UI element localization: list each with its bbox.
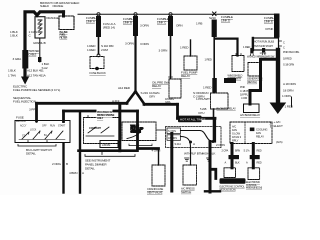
svg-text:BLK: BLK (235, 160, 240, 164)
hot in run box (253, 38, 279, 50)
bus hot at all times dashed (78, 13, 274, 15)
svg-text:3 ORN: 3 ORN (140, 42, 149, 46)
svg-text:FILTER: FILTER (60, 36, 68, 39)
svg-text:ACCY: ACCY (20, 125, 27, 128)
wire blower relay to junction (213, 109, 215, 141)
svg-text:A/C: A/C (232, 125, 236, 129)
small labels boxes right of oil box (167, 128, 181, 134)
ground bracket symbols mid bottom (185, 158, 190, 161)
branch to a/c press switch (190, 148, 192, 166)
thick wire oil switch to bottom (170, 134, 173, 192)
ECM internal divider (244, 122, 246, 144)
svg-text:FAN: FAN (256, 131, 261, 135)
a/c blower relay box (244, 104, 260, 113)
svg-text:1 TAN: 1 TAN (8, 74, 16, 78)
terminal label box 18 ORN (167, 135, 181, 141)
svg-text:LINK E: LINK E (264, 20, 273, 24)
svg-text:LINK C: LINK C (157, 21, 167, 25)
svg-text:S 214: S 214 (175, 142, 182, 146)
in-line fuel filter box (59, 16, 74, 30)
wire A below box1 (62, 144, 64, 193)
svg-text:S ORN: S ORN (168, 130, 176, 133)
wire along y118 (178, 117, 216, 120)
wire oil switch contact lower (181, 137, 191, 148)
svg-text:1 RED: 1 RED (180, 46, 189, 50)
hot box thick left edge (252, 38, 254, 50)
svg-text:RED: RED (257, 149, 262, 153)
svg-text:C: C (283, 46, 285, 50)
wire right drop x137 (136, 111, 139, 149)
relay coil black square (250, 128, 255, 132)
svg-text:2 ORG: 2 ORG (52, 162, 62, 166)
svg-text:RELAY: RELAY (181, 74, 190, 78)
corner right down (176, 104, 179, 118)
svg-text:A12 BLK 451: A12 BLK 451 (27, 69, 44, 73)
wire drop into ignition switch box (62, 111, 65, 122)
svg-text:A 18 ORN: A 18 ORN (283, 82, 296, 86)
bracket under box1 (18, 145, 56, 147)
ECM big dashed box (230, 122, 272, 144)
svg-text:B: B (66, 162, 68, 166)
svg-text:ONLY: ONLY (97, 117, 104, 120)
oil pressure dashed box (122, 122, 156, 141)
black label box (178, 116, 202, 123)
wire link B down (134, 36, 136, 91)
connector C100 (97, 54, 100, 57)
svg-text:18 RED: 18 RED (283, 57, 292, 61)
svg-text:SWITCH: SWITCH (181, 190, 191, 194)
svg-text:3 ORN: 3 ORN (159, 49, 168, 53)
dashed box under (232, 56, 244, 72)
bars hanging from ECM box (231, 144, 234, 168)
svg-text:S 18 GRN: S 18 GRN (283, 63, 294, 67)
ignition switch detail box (15, 121, 70, 143)
svg-text:SHIELD ORANGE: SHIELD ORANGE (40, 4, 63, 8)
bus right horizontal (144, 103, 178, 106)
wire ECM drop right (252, 144, 255, 168)
wire link D down thin (213, 37, 215, 78)
svg-text:L35 RM: L35 RM (102, 143, 110, 147)
svg-text:3 GRA: 3 GRA (13, 57, 23, 61)
blower relay dashed box (211, 93, 229, 109)
fusible link symbol above blower relay (212, 78, 217, 93)
svg-text:1 ORN: 1 ORN (282, 94, 291, 98)
link D to box drop wire (216, 39, 238, 56)
svg-text:LINK B: LINK B (123, 21, 132, 25)
corner left down (35, 103, 38, 121)
svg-text:GRN/WH B: GRN/WH B (33, 41, 46, 45)
crankcase dashed box (152, 165, 165, 186)
svg-text:OFF: OFF (42, 126, 47, 128)
svg-text:1 RB: 1 RB (196, 22, 202, 26)
svg-text:RUN: RUN (50, 126, 55, 128)
svg-text:2 ORN: 2 ORN (216, 143, 225, 147)
corner down to junction (214, 118, 216, 141)
wire along y148 (138, 147, 159, 150)
svg-text:1 PNK: 1 PNK (260, 51, 267, 55)
svg-text:S LOW: S LOW (232, 132, 241, 136)
svg-text:RED: RED (257, 160, 262, 164)
svg-text:LOCK: LOCK (30, 130, 37, 132)
pin ticks wiper motor box (236, 54, 241, 56)
wire link A down (98, 37, 100, 54)
relay dashed box R1 (184, 56, 197, 70)
svg-text:A/C BLWR RELAY: A/C BLWR RELAY (240, 113, 260, 117)
svg-text:C: C (283, 41, 285, 45)
svg-text:1 RED: 1 RED (203, 86, 212, 90)
svg-text:GRA: GRA (165, 100, 171, 104)
svg-text:RELAY: RELAY (152, 84, 161, 88)
svg-text:MODULE (ECM): MODULE (ECM) (246, 187, 262, 190)
bracket under oil box (129, 144, 152, 146)
connector nubs under hot box (250, 48, 253, 53)
svg-text:LINK D: LINK D (221, 19, 231, 23)
svg-text:VENT VALVE: VENT VALVE (147, 191, 163, 195)
svg-text:HOT AT ALL TIMES: HOT AT ALL TIMES (180, 118, 205, 122)
wire B long drop to bottom (79, 113, 81, 193)
splice S211 black tag (224, 78, 236, 83)
bus left horizontal (37, 102, 128, 105)
wire main feed top left with connector notch (25, 12, 64, 80)
instrument dimmer inner dashed box (84, 118, 121, 144)
svg-text:LINK A: LINK A (86, 20, 96, 24)
fusible link E (274, 14, 280, 38)
fusible link D bar (212, 20, 217, 38)
svg-text:PNK/ BLK DBL: PNK/ BLK DBL (283, 50, 300, 54)
svg-text:3 PU: 3 PU (198, 111, 204, 115)
splice bar on sender wire (38, 57, 41, 62)
svg-text:ELECT: ELECT (274, 124, 283, 128)
generator dashed box (248, 63, 260, 77)
svg-text:4 BRN: 4 BRN (69, 171, 77, 175)
ECM dashed box bottom right (248, 168, 260, 180)
svg-text:MODULE (ECM): MODULE (ECM) (220, 189, 236, 192)
wire oil box to terminal labels (157, 129, 166, 131)
svg-text:1 BLK: 1 BLK (8, 69, 17, 73)
switch contacts dimmer (86, 127, 114, 136)
switch symbols inside box1 (22, 131, 63, 139)
svg-text:2 CPA: 2 CPA (222, 149, 229, 153)
svg-text:C 18 PPL/WHT: C 18 PPL/WHT (240, 89, 257, 93)
svg-text:1 PPL/WHT: 1 PPL/WHT (196, 97, 211, 101)
right thin wire (291, 97, 293, 107)
thick wire down to black tag (209, 142, 212, 193)
svg-text:HOT IN RUN, BULB: HOT IN RUN, BULB (254, 41, 275, 44)
svg-text:FUSE BLOCK: FUSE BLOCK (90, 71, 107, 75)
svg-text:BRN: BRN (235, 149, 240, 153)
bracket under dimmer area (85, 152, 135, 157)
branch wire to splice tag (210, 169, 216, 178)
svg-text:FUEL PUMP/FUEL SENDER (4 CYL): FUEL PUMP/FUEL SENDER (4 CYL) (13, 88, 60, 92)
arrowhead ground (270, 103, 287, 115)
pin ticks C C (279, 41, 282, 46)
sender resistor ladder (38, 20, 42, 35)
dimmer bottom wire (79, 149, 138, 152)
ground symbol right (207, 158, 212, 161)
splice chevron S219 (127, 92, 145, 105)
junction dot (95, 67, 99, 71)
svg-text:(DETAIL): (DETAIL) (247, 80, 257, 84)
svg-text:BROWN TO C/B GROUND SHIELD: BROWN TO C/B GROUND SHIELD (40, 1, 79, 5)
svg-text:HIGH BLK: HIGH BLK (202, 152, 216, 156)
svg-text:18 PPL: 18 PPL (240, 92, 249, 96)
svg-text:2 RM: 2 RM (101, 48, 108, 52)
wire link C down (170, 36, 172, 78)
svg-text:A12 RED: A12 RED (118, 86, 131, 90)
svg-text:FAN: FAN (232, 128, 237, 132)
svg-text:TEST AND START: TEST AND START (254, 45, 273, 48)
svg-text:3 PPL: 3 PPL (29, 107, 37, 111)
svg-text:PNK: PNK (240, 85, 245, 89)
connector nub B (262, 48, 265, 52)
splice tag S17s (250, 155, 260, 159)
svg-text:1 RED: 1 RED (243, 45, 250, 49)
svg-text:4 ORN: 4 ORN (152, 148, 161, 152)
fuel sender wire (36, 15, 38, 17)
dashed box oil pressure sw mid (169, 79, 181, 98)
connector pin ticks (251, 53, 265, 56)
svg-text:WSHLD WPR/WSHR SW: WSHLD WPR/WSHR SW (247, 55, 275, 59)
fuel tank unit box (35, 17, 45, 38)
svg-text:RPLY: RPLY (232, 139, 239, 143)
internal curved wires (181, 131, 214, 142)
svg-text:1 RED: 1 RED (285, 105, 294, 109)
switch arm oil pressure switch (127, 134, 139, 139)
svg-text:SWITCH: SWITCH (131, 129, 141, 133)
svg-text:3 PNK: 3 PNK (265, 27, 274, 31)
fusible link B (134, 13, 137, 16)
svg-text:1 RED: 1 RED (205, 58, 212, 62)
wire relay R1 feed (190, 40, 192, 56)
fusible link C (169, 13, 172, 16)
junction dot node S214 (189, 141, 192, 144)
svg-text:(RED 14): (RED 14) (103, 26, 115, 30)
splice S210 on bus (213, 12, 217, 16)
svg-text:CABLE: CABLE (29, 52, 37, 56)
svg-text:3 ORN: 3 ORN (140, 24, 149, 28)
pin ticks box1 (28, 121, 64, 143)
svg-text:1 RED: 1 RED (87, 48, 96, 52)
black tag bottom (220, 178, 246, 184)
wire hot box to blower relay (250, 59, 278, 104)
svg-text:BLOCK: BLOCK (16, 119, 27, 123)
svg-text:FUEL INJECTION: FUEL INJECTION (13, 100, 36, 104)
svg-text:ORN: ORN (176, 24, 182, 28)
svg-text:18 GN 3: 18 GN 3 (232, 135, 242, 139)
svg-text:START: START (58, 125, 66, 128)
tiny text labels (8, 1, 300, 195)
arrow ground electric fuel pump (21, 77, 29, 85)
svg-text:3 ORN: 3 ORN (125, 42, 134, 46)
ground foot bottom (205, 190, 220, 192)
fuse block dashed box (90, 57, 104, 69)
svg-text:ORANGE: ORANGE (46, 16, 59, 20)
small box inside (100, 141, 118, 148)
svg-text:TWISTED: TWISTED (29, 49, 40, 53)
svg-text:A12 TAN 451A: A12 TAN 451A (27, 74, 47, 78)
ignition sw wire upper (64, 110, 138, 113)
switch arrows box1 (29, 131, 53, 134)
contact rail box1 (19, 139, 65, 141)
oil pressure switch wide dashed box (166, 127, 222, 148)
svg-text:18 ORN: 18 ORN (283, 89, 293, 93)
svg-text:BLOWER RELAY: BLOWER RELAY (217, 106, 237, 110)
wire bus branch down at x120 (118, 105, 121, 151)
svg-text:4 OM: 4 OM (241, 96, 248, 100)
big arrow feed (276, 50, 280, 103)
svg-text:COMPART: COMPART (89, 126, 101, 130)
svg-text:WIPER MTR: WIPER MTR (228, 77, 242, 81)
svg-text:GRY: GRY (149, 95, 155, 99)
svg-text:(ACS): (ACS) (276, 140, 283, 144)
svg-text:1 BLK: 1 BLK (10, 34, 19, 38)
ac press dashed box (183, 165, 197, 185)
svg-text:COOLING: COOLING (256, 128, 267, 132)
svg-text:RELAY: RELAY (256, 135, 264, 139)
connector tick A oil pressure relay (169, 76, 173, 78)
shielded cable section (22, 50, 28, 69)
svg-text:GENERATOR: GENERATOR (247, 76, 263, 80)
svg-text:18 ORN: 18 ORN (168, 137, 177, 140)
svg-text:A 219: A 219 (112, 99, 120, 103)
TCM dashed box (224, 168, 236, 178)
svg-text:S 17s: S 17s (244, 149, 251, 153)
junction dot node S21B (212, 140, 215, 143)
svg-text:S210: S210 (209, 16, 216, 20)
svg-text:S 219: S 219 (141, 91, 149, 95)
svg-text:WTHRLF BTM: WTHRLF BTM (184, 152, 203, 156)
pin ticks dimmer box (88, 116, 104, 118)
svg-text:DETAIL: DETAIL (26, 152, 36, 156)
splice black tags (229, 155, 240, 159)
svg-text:DETAIL: DETAIL (85, 167, 95, 171)
label white backing (97, 109, 113, 120)
fusible link A (97, 13, 100, 16)
wire in-line filter drop (62, 12, 65, 16)
wire feed crankcase vent valve (158, 149, 160, 166)
svg-text:C 218: C 218 (102, 149, 109, 152)
